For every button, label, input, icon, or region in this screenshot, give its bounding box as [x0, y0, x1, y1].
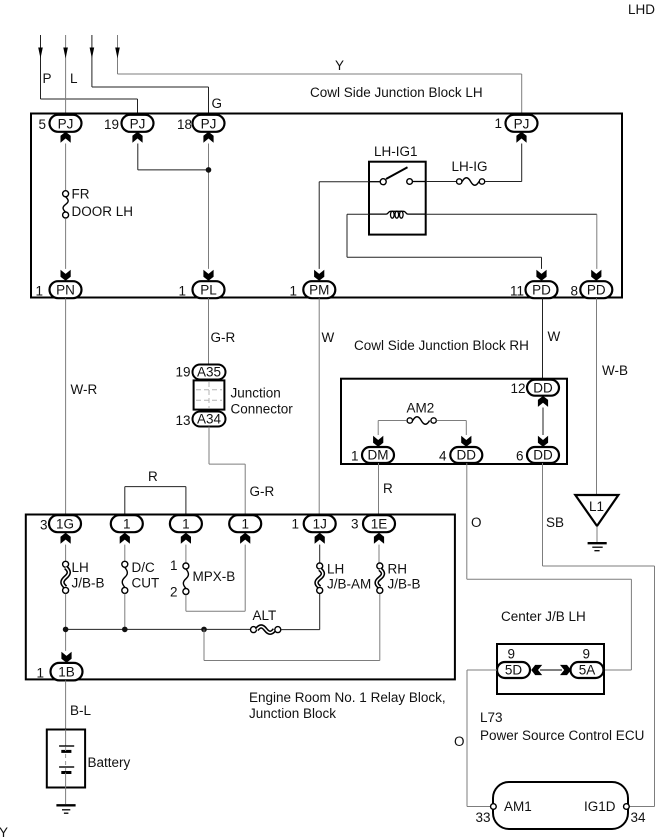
wire W PM to 1J [319, 298, 334, 515]
svg-text:Y: Y [335, 58, 344, 73]
svg-text:J/B-B: J/B-B [388, 577, 421, 592]
svg-text:L73: L73 [480, 710, 503, 725]
svg-text:1: 1 [291, 517, 299, 532]
svg-text:Battery: Battery [88, 755, 131, 770]
svg-text:11: 11 [510, 284, 524, 299]
svg-text:1G: 1G [56, 517, 74, 532]
node dot branch [201, 627, 207, 633]
svg-text:1: 1 [351, 449, 359, 464]
svg-text:PN: PN [56, 283, 75, 298]
Cowl Side Junction Block RH box [341, 338, 567, 464]
wire 1PM to relay switch [319, 182, 369, 269]
svg-text:LHD: LHD [628, 2, 655, 17]
connector 4 DD [439, 436, 482, 464]
connector 5 PJ [38, 115, 81, 143]
svg-text:PJ: PJ [58, 116, 74, 131]
wire W-B 8PD to L1 [597, 298, 629, 495]
svg-text:1E: 1E [371, 517, 388, 532]
wire Y entry [115, 35, 522, 115]
node junction dot [206, 167, 212, 173]
wire 12DD to 6DD [542, 408, 544, 436]
svg-text:R: R [383, 481, 393, 496]
svg-text:LH: LH [327, 562, 344, 577]
svg-text:1: 1 [289, 284, 297, 299]
svg-text:A35: A35 [197, 365, 221, 380]
svg-text:AM2: AM2 [407, 401, 435, 416]
connector 9 5D [497, 647, 542, 679]
svg-text:B-L: B-L [70, 703, 92, 718]
svg-text:AM1: AM1 [504, 799, 532, 814]
svg-text:PD: PD [587, 283, 606, 298]
wire 19PJ to 18PJ column junction [138, 144, 209, 170]
svg-text:J/B-B: J/B-B [72, 576, 105, 591]
connector 3 1G [40, 515, 81, 544]
ground for L1 [588, 543, 607, 551]
svg-text:Junction Block: Junction Block [249, 706, 336, 721]
junction connector A35/A34 [175, 365, 293, 429]
fusible link RH J/B-B [377, 545, 421, 594]
svg-text:5A: 5A [579, 663, 596, 678]
fuse AM2 [378, 401, 466, 436]
svg-text:L: L [70, 71, 78, 86]
fuse LH-IG [426, 144, 522, 186]
connector 1 1J [291, 515, 335, 544]
svg-text:FR: FR [72, 187, 90, 202]
svg-text:PM: PM [309, 283, 329, 298]
wire G entry [90, 35, 222, 114]
svg-text:Y: Y [0, 825, 8, 838]
svg-text:1J: 1J [313, 517, 327, 532]
wire SB 6DD to IG1D [543, 463, 655, 807]
svg-text:G: G [212, 96, 223, 111]
svg-text:9: 9 [508, 647, 516, 662]
wire W-R PN to 1G [66, 298, 98, 515]
svg-text:W: W [322, 330, 335, 345]
svg-text:1B: 1B [58, 665, 75, 680]
svg-text:19: 19 [104, 117, 119, 132]
wire bus to 1B [66, 629, 251, 651]
svg-text:Center J/B LH: Center J/B LH [501, 609, 586, 624]
connector 1 PN [35, 270, 81, 299]
svg-text:5: 5 [38, 117, 46, 132]
fusible link LH J/B-AM [317, 545, 372, 594]
svg-text:O: O [454, 734, 465, 749]
ECU L73 Power Source Control ECU [475, 710, 646, 829]
svg-text:34: 34 [631, 810, 647, 825]
svg-text:1: 1 [241, 517, 249, 532]
connector 11 PD [510, 270, 558, 299]
connector 1 (MPX-B column) [170, 515, 202, 544]
connector 6 DD [516, 436, 559, 464]
connector 1 DM [351, 436, 394, 464]
svg-text:L1: L1 [589, 499, 604, 514]
svg-text:13: 13 [175, 413, 190, 428]
Cowl Side Junction Block LH box [31, 85, 622, 298]
wire B-L 1B to battery [66, 680, 92, 729]
svg-text:RH: RH [388, 562, 408, 577]
svg-text:Cowl Side Junction Block RH: Cowl Side Junction Block RH [354, 338, 529, 353]
svg-text:SB: SB [546, 515, 564, 530]
wire relay coil to 8 PD [426, 214, 597, 269]
Center J/B LH box [497, 609, 604, 694]
svg-text:12: 12 [510, 381, 525, 396]
svg-text:PJ: PJ [201, 116, 217, 131]
svg-text:LH: LH [72, 560, 89, 575]
svg-text:J/B-AM: J/B-AM [327, 577, 371, 592]
wire battery to ground [65, 788, 67, 805]
svg-text:Connector: Connector [231, 402, 294, 417]
wire P entry [38, 35, 137, 114]
connector 1 PL [178, 270, 224, 299]
svg-text:1: 1 [123, 517, 131, 532]
svg-text:DD: DD [533, 448, 553, 463]
wire R bridge between relay block connectors [125, 469, 186, 515]
svg-text:LH-IG1: LH-IG1 [374, 144, 418, 159]
svg-text:8: 8 [570, 284, 578, 299]
svg-text:1: 1 [170, 558, 178, 573]
wire 18PJ down to 1PL [208, 144, 210, 269]
svg-text:1: 1 [494, 116, 502, 131]
svg-text:W-B: W-B [602, 363, 628, 378]
noise filter L1 [575, 495, 618, 542]
svg-text:4: 4 [439, 449, 447, 464]
svg-text:R: R [148, 469, 158, 484]
svg-text:1: 1 [182, 517, 190, 532]
connector 1 PJ [494, 115, 537, 143]
svg-text:18: 18 [177, 117, 192, 132]
wire G-R PL to A35 [209, 298, 236, 364]
svg-text:Engine Room No. 1 Relay Block,: Engine Room No. 1 Relay Block, [249, 690, 446, 705]
svg-text:O: O [471, 515, 482, 530]
fusible link LH J/B-B [62, 545, 104, 630]
connector 12 DD [510, 380, 559, 407]
Engine Room No.1 Relay Block box [26, 515, 455, 722]
connector 9 5A [560, 647, 604, 679]
svg-text:DM: DM [368, 448, 389, 463]
connector 8 PD [570, 270, 612, 299]
svg-text:DD: DD [457, 448, 477, 463]
svg-text:W: W [548, 329, 561, 344]
svg-text:ALT: ALT [253, 608, 277, 623]
svg-text:DOOR LH: DOOR LH [72, 204, 134, 219]
svg-text:LH-IG: LH-IG [452, 159, 488, 174]
connector 1 PM [289, 270, 335, 299]
svg-text:3: 3 [40, 518, 48, 533]
wire W 11PD to 12DD [543, 298, 561, 379]
svg-text:A34: A34 [197, 412, 222, 427]
svg-text:19: 19 [175, 365, 190, 380]
fuse D/C CUT [122, 545, 159, 630]
svg-text:5D: 5D [505, 663, 523, 678]
svg-text:1: 1 [36, 666, 44, 681]
wire RH J/B-B to branch node [204, 594, 380, 661]
svg-text:1: 1 [178, 284, 186, 299]
svg-text:PD: PD [532, 283, 551, 298]
fuse MPX-B [170, 545, 235, 600]
connector 19 PJ [104, 115, 154, 143]
wire MPX-B pin2 to connector 1 [186, 545, 245, 612]
relay LH-IG1 [369, 144, 426, 235]
svg-text:PJ: PJ [130, 116, 146, 131]
svg-text:G-R: G-R [250, 484, 275, 499]
wire R DM to 1E [379, 463, 394, 515]
svg-text:Junction: Junction [231, 386, 281, 401]
svg-text:9: 9 [583, 647, 591, 662]
svg-text:CUT: CUT [132, 576, 160, 591]
wire O 5D to AM1 [454, 670, 497, 807]
svg-text:G-R: G-R [211, 330, 236, 345]
wire O 4DD to 5A [467, 463, 632, 670]
node dot D/C CUT column [122, 627, 128, 633]
svg-text:PJ: PJ [514, 116, 530, 131]
svg-text:33: 33 [475, 810, 490, 825]
svg-text:1: 1 [35, 284, 43, 299]
fusible link ALT [251, 594, 320, 633]
svg-text:2: 2 [170, 585, 178, 600]
svg-text:6: 6 [516, 449, 524, 464]
connector 1 (G-R column) [229, 515, 261, 544]
svg-text:D/C: D/C [132, 560, 156, 575]
connector 1 1B [36, 652, 82, 681]
connector 18 PJ [177, 115, 225, 143]
wire between 5D and 5A arrows [540, 669, 562, 671]
wire relay coil to 11 PD [347, 214, 542, 269]
switch FR DOOR LH [63, 144, 133, 269]
node dot 1G column [63, 627, 69, 633]
svg-text:Cowl Side Junction Block LH: Cowl Side Junction Block LH [310, 85, 483, 100]
svg-text:W-R: W-R [71, 382, 98, 397]
connector 1 (D/C CUT column) [111, 515, 143, 544]
svg-text:PL: PL [200, 283, 217, 298]
ground for battery [56, 805, 75, 813]
svg-text:DD: DD [533, 381, 553, 396]
svg-text:MPX-B: MPX-B [193, 569, 236, 584]
svg-text:3: 3 [351, 517, 359, 532]
wire L entry [63, 35, 78, 115]
wire G-R A34 to relay block [209, 427, 274, 516]
svg-text:P: P [43, 71, 52, 86]
svg-text:Power Source Control ECU: Power Source Control ECU [480, 728, 644, 743]
connector 3 1E [351, 515, 395, 544]
svg-text:IG1D: IG1D [584, 799, 616, 814]
battery [47, 730, 131, 788]
